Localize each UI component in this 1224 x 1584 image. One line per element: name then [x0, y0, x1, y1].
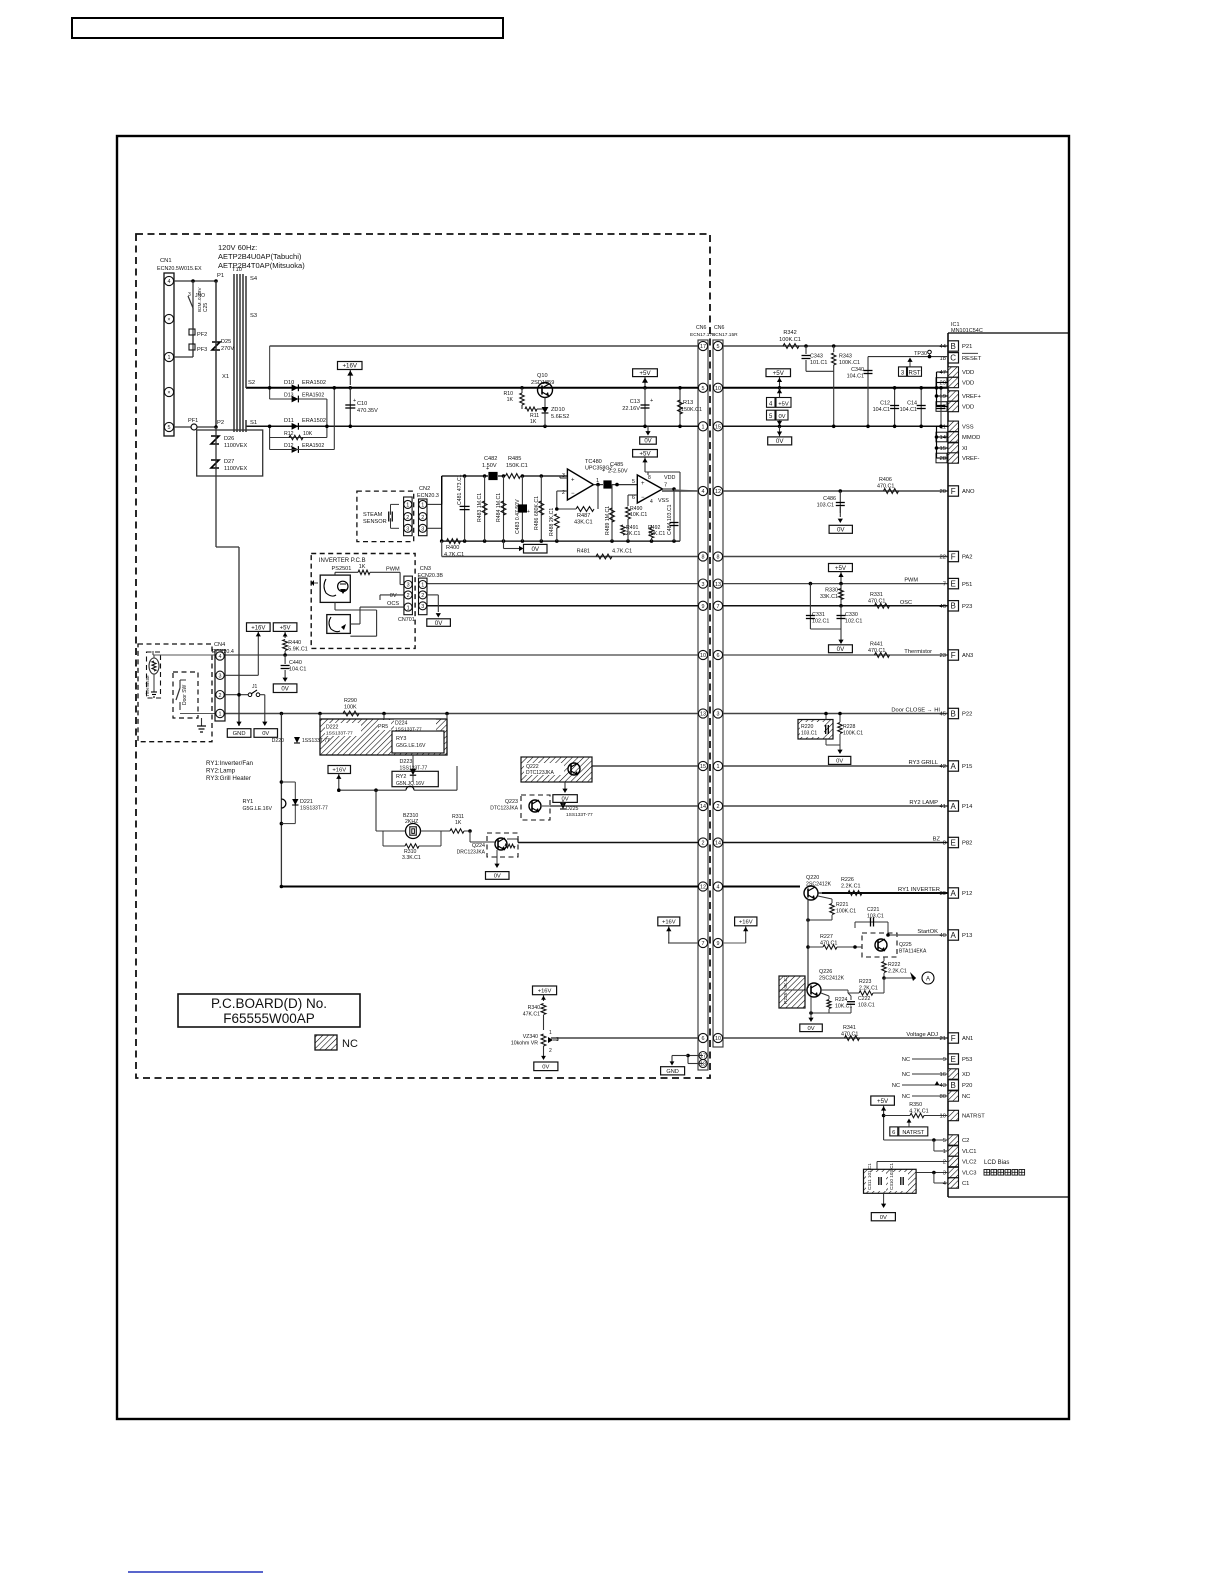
- svg-text:E: E: [951, 1055, 956, 1064]
- steam sensor dashed box: [357, 491, 414, 541]
- resistor R290 100K: [280, 698, 449, 716]
- capacitor C340 104.C1: [847, 357, 873, 429]
- svg-text:RY3 GRILL: RY3 GRILL: [908, 760, 938, 766]
- svg-text:1SS133T-77: 1SS133T-77: [302, 738, 330, 744]
- net label RY1 INVERTER: [898, 887, 940, 893]
- wire StartOK: [886, 933, 948, 937]
- svg-text:P12: P12: [962, 891, 972, 897]
- svg-text:VDD: VDD: [962, 405, 974, 411]
- connector CN701 pin 2: [404, 591, 412, 599]
- svg-text:23: 23: [940, 653, 946, 659]
- svg-text:+5V: +5V: [773, 370, 785, 377]
- svg-text:+16V: +16V: [662, 919, 676, 925]
- wire CN1-1 to fuse branch: [174, 308, 193, 357]
- svg-text:Q226: Q226: [819, 969, 832, 975]
- resistor R481 4.7K.C1: [577, 549, 633, 559]
- connector CN1 pin 1: [164, 352, 173, 361]
- svg-text:5: 5: [943, 1138, 946, 1144]
- svg-text:CN3: CN3: [420, 566, 431, 572]
- svg-text:33K.C1: 33K.C1: [820, 594, 838, 600]
- wire VDD pin bus: [935, 372, 948, 407]
- ic pin 21 AN1: [940, 1033, 974, 1043]
- wire CN2-1 to opamp rail: [427, 476, 442, 504]
- svg-text:VLC2: VLC2: [962, 1160, 977, 1166]
- footer link line: [128, 1571, 263, 1573]
- svg-text:1SS133T-77: 1SS133T-77: [566, 812, 593, 818]
- svg-text:C485: C485: [610, 462, 623, 468]
- wire bus y655 pins 10/6: [224, 650, 948, 659]
- svg-text:XD: XD: [962, 1072, 970, 1078]
- svg-text:B: B: [951, 342, 956, 351]
- svg-text:1: 1: [219, 712, 222, 718]
- svg-text:VREF+: VREF+: [962, 394, 981, 400]
- net label Thermistor: [904, 649, 932, 655]
- svg-text:R488 2K.C1: R488 2K.C1: [549, 508, 555, 536]
- wire bus y806 pins 14/2: [550, 801, 948, 810]
- wire R12 branch: [268, 425, 329, 450]
- power +16V pin9: [723, 917, 757, 943]
- buzzer BZ310 2KHZ: [376, 790, 450, 838]
- wire opamp bottom rail: [440, 539, 680, 543]
- resistor R331 470.C1: [868, 592, 890, 608]
- wire door to CN4-1: [180, 680, 224, 714]
- transistor Q10 2SD1859: [520, 373, 554, 428]
- text mains rating: [218, 243, 305, 270]
- wire C1 jog: [934, 1173, 948, 1184]
- svg-text:0V: 0V: [262, 731, 269, 737]
- wire opto internal 0V: [335, 602, 377, 636]
- svg-text:0V: 0V: [778, 414, 785, 420]
- connector steam pin 2: [404, 513, 412, 521]
- power 0V door: [829, 756, 851, 764]
- svg-text:8: 8: [943, 841, 946, 847]
- op-amp U1B: [632, 475, 676, 505]
- svg-text:P82: P82: [962, 841, 972, 847]
- wire opamp vdd rail: [645, 472, 680, 541]
- svg-text:16: 16: [940, 1072, 946, 1078]
- svg-text:10: 10: [700, 653, 706, 659]
- svg-text:TC480: TC480: [585, 459, 602, 465]
- svg-text:P13: P13: [962, 933, 972, 939]
- svg-text:3.3K.C1: 3.3K.C1: [402, 855, 421, 861]
- potentiometer VR340 10kohm: [511, 1030, 559, 1054]
- svg-text:PF3: PF3: [197, 347, 207, 353]
- connector CN6 ECN17-17S body: [690, 325, 715, 1070]
- svg-text:J1: J1: [252, 684, 258, 690]
- svg-text:R350: R350: [909, 1102, 922, 1108]
- svg-text:S4: S4: [250, 276, 258, 282]
- svg-text:7: 7: [717, 604, 720, 610]
- svg-text:ECN20.3: ECN20.3: [417, 493, 439, 499]
- ic pin 5 C2: [943, 1135, 970, 1145]
- svg-text:8: 8: [717, 555, 720, 561]
- svg-text:P1: P1: [217, 273, 224, 279]
- svg-text:D224: D224: [395, 721, 408, 727]
- connector CN1 label: [157, 258, 202, 272]
- capacitor C343 101.C1: [802, 346, 834, 371]
- svg-text:C340: C340: [851, 367, 864, 373]
- svg-text:TP30: TP30: [914, 351, 927, 357]
- ic pin 8 P82: [943, 837, 973, 847]
- svg-text:2SD1859: 2SD1859: [531, 380, 554, 386]
- ic pin 11 VSS: [940, 421, 974, 431]
- svg-text:RY3: RY3: [396, 736, 406, 742]
- svg-text:2: 2: [943, 1160, 946, 1166]
- diode D13 ERA1502: [284, 393, 324, 403]
- svg-text:4.7K.C1: 4.7K.C1: [612, 549, 632, 555]
- wire RY2 rail: [337, 766, 457, 792]
- svg-text:1: 1: [407, 605, 410, 611]
- svg-text:NC: NC: [902, 1057, 910, 1063]
- svg-text:21: 21: [940, 1036, 946, 1042]
- wire RY1 vertical: [280, 714, 284, 889]
- svg-text:×: ×: [167, 390, 170, 396]
- svg-text:270V: 270V: [221, 346, 234, 352]
- svg-text:RST: RST: [909, 370, 921, 376]
- svg-text:0V: 0V: [808, 1026, 815, 1032]
- wire VSS pin bus: [935, 426, 948, 458]
- svg-text:PWM: PWM: [386, 567, 400, 573]
- svg-text:D25: D25: [221, 339, 231, 345]
- svg-text:10kohm VR: 10kohm VR: [511, 1041, 538, 1047]
- svg-text:1: 1: [421, 583, 424, 589]
- net label Voltage ADJ: [906, 1032, 938, 1038]
- diode D225 1SS133T-77: [560, 800, 593, 818]
- svg-text:P15: P15: [962, 764, 972, 770]
- power +16V relay rail: [328, 766, 351, 791]
- power 0V mid: [829, 645, 853, 653]
- svg-text:ZD10: ZD10: [551, 407, 565, 413]
- svg-text:5.9K.C1: 5.9K.C1: [288, 647, 307, 653]
- connector CN3 pin 2: [419, 591, 427, 599]
- svg-text:C486: C486: [823, 496, 836, 502]
- svg-text:C: C: [950, 354, 956, 363]
- svg-text:150K.C1: 150K.C1: [681, 407, 702, 413]
- wire VLC2 net: [877, 1162, 948, 1170]
- inverter pcb label: [319, 558, 366, 564]
- svg-text:15: 15: [700, 764, 706, 770]
- label box 5 0V: [767, 410, 789, 428]
- power +16V vr: [533, 986, 557, 1001]
- svg-text:AN3: AN3: [962, 653, 973, 659]
- svg-text:1: 1: [943, 1149, 946, 1155]
- svg-text:R489 1M.C1: R489 1M.C1: [605, 506, 611, 535]
- resistor R341 470.C1: [841, 1025, 860, 1040]
- svg-text:D10: D10: [284, 380, 294, 386]
- resistor R224 10K.C1: [809, 993, 852, 1015]
- svg-text:T10: T10: [232, 267, 242, 273]
- svg-text:VDD: VDD: [664, 475, 675, 481]
- ic pin 15 XI: [940, 443, 968, 453]
- svg-text:NATRST: NATRST: [902, 1130, 925, 1136]
- svg-text:RY3:Grill Heater: RY3:Grill Heater: [206, 775, 251, 782]
- resistor R483 1M.C1: [477, 476, 487, 541]
- net label OCS inverter: [387, 601, 399, 607]
- svg-text:1SS133T-77: 1SS133T-77: [300, 806, 328, 812]
- connector CN4 body: [215, 650, 225, 721]
- wire Q224 collector BZ: [507, 839, 518, 843]
- svg-text:0V: 0V: [644, 439, 651, 445]
- capacitor bypass third: [937, 386, 946, 428]
- capacitor C222 103.C1: [829, 993, 875, 1013]
- svg-text:2: 2: [407, 593, 410, 599]
- svg-text:101.C1: 101.C1: [810, 360, 827, 366]
- diode D220 1SS133T-77: [272, 737, 330, 744]
- resistor R488 2K.C1: [549, 508, 559, 541]
- svg-text:R228: R228: [843, 724, 856, 730]
- capacitor C10 470.35V: [345, 388, 378, 428]
- svg-text:C331: C331: [812, 612, 825, 618]
- ic pin 14 MMOD: [940, 432, 981, 442]
- NC legend: [315, 1035, 358, 1050]
- svg-text:+: +: [650, 398, 653, 404]
- wire opto2 to OCS: [350, 607, 404, 624]
- svg-text:Q225: Q225: [899, 942, 912, 948]
- resistor R491 2K.C1: [621, 525, 641, 537]
- diode ZD10 5.6ES2: [542, 398, 570, 427]
- svg-text:Q220: Q220: [806, 875, 819, 881]
- power +5V mid: [829, 564, 853, 586]
- ic pin 41 P14: [940, 801, 974, 811]
- wire CN2-3 to bottom rail: [427, 527, 442, 529]
- svg-text:C481 473.C1: C481 473.C1: [457, 474, 463, 505]
- svg-text:R483 1M.C1: R483 1M.C1: [477, 493, 483, 522]
- svg-text:ERA1502: ERA1502: [302, 418, 326, 424]
- svg-text:Q10: Q10: [537, 373, 548, 379]
- svg-text:1: 1: [717, 764, 720, 770]
- ic pin 46 P23: [940, 601, 973, 611]
- svg-text:2K.C1: 2K.C1: [626, 531, 641, 537]
- steam sensor label: [363, 512, 387, 525]
- svg-text:1K: 1K: [455, 820, 462, 826]
- wire P2 down to jog: [216, 427, 239, 726]
- connector CN4 pin 4: [216, 652, 224, 660]
- capacitor R220 103.C1 hatched: [798, 712, 840, 745]
- svg-text:20: 20: [940, 489, 946, 495]
- svg-text:8: 8: [648, 475, 651, 481]
- resistor R406 470.C1: [839, 477, 899, 493]
- svg-text:7: 7: [943, 582, 946, 588]
- thermistor symbol: [145, 652, 161, 698]
- svg-text:3: 3: [943, 1171, 946, 1177]
- svg-text:PS2501: PS2501: [332, 566, 352, 572]
- capacitor C484 103.C1: [667, 504, 679, 541]
- svg-text:7: 7: [702, 941, 705, 947]
- steam sensor element: [389, 504, 399, 528]
- capacitor C483 0.47.50V: [515, 476, 530, 541]
- svg-text:Voltage ADJ: Voltage ADJ: [906, 1032, 938, 1038]
- svg-text:D220: D220: [272, 738, 285, 744]
- svg-text:2: 2: [219, 693, 222, 699]
- ic pin 28 VREF-: [940, 453, 980, 463]
- svg-text:5.6ES2: 5.6ES2: [551, 414, 569, 420]
- svg-text:0V: 0V: [880, 1215, 887, 1221]
- ic pin 45 P22: [940, 708, 973, 718]
- ic pin 7 P51: [943, 578, 973, 588]
- net label NC P20: [892, 1081, 948, 1089]
- connector CN1 body: [164, 273, 174, 436]
- svg-text:104.C1: 104.C1: [289, 667, 306, 673]
- net label BZ: [933, 837, 941, 843]
- power 0V cn4: [273, 684, 297, 693]
- resistor R492 10K.C1: [648, 525, 665, 541]
- svg-text:D26: D26: [224, 436, 234, 442]
- resistor R310 3.3K.C1: [383, 831, 441, 861]
- svg-text:103.C1: 103.C1: [867, 914, 884, 920]
- svg-text:X1: X1: [222, 374, 229, 380]
- ic pin 10 NATRST: [940, 1110, 986, 1120]
- net label NC NC: [902, 1094, 948, 1100]
- connector CN2 label: [417, 486, 439, 499]
- svg-text:S1: S1: [250, 420, 257, 426]
- svg-text:12: 12: [715, 489, 721, 495]
- diode D11 ERA1502: [284, 418, 326, 430]
- svg-text:C310 103.C1: C310 103.C1: [889, 1162, 894, 1190]
- svg-text:D221: D221: [300, 799, 313, 805]
- svg-text:A: A: [951, 762, 957, 771]
- test point TP30: [914, 350, 931, 358]
- connector CN4 pin 1: [216, 709, 224, 717]
- svg-text:DRC123JKA: DRC123JKA: [457, 850, 486, 856]
- svg-text:P.C.BOARD(D) No.: P.C.BOARD(D) No.: [211, 996, 327, 1011]
- svg-text:R223: R223: [859, 979, 872, 985]
- svg-text:+16V: +16V: [332, 768, 346, 774]
- svg-text:103.C1: 103.C1: [817, 503, 834, 509]
- svg-text:43K.C1: 43K.C1: [574, 520, 593, 526]
- svg-text:+16V: +16V: [538, 988, 552, 994]
- svg-text:R485: R485: [508, 456, 521, 462]
- switch JNO thermal cutout: [188, 281, 205, 308]
- svg-text:43: 43: [940, 1083, 946, 1089]
- resistor R10 1K: [503, 388, 524, 409]
- svg-text:45: 45: [940, 712, 946, 718]
- power GND bottom: [661, 1054, 703, 1075]
- svg-text:StartOK: StartOK: [917, 929, 938, 935]
- wire bus y886 pins 12/4: [281, 882, 800, 891]
- wire opto 0V to CN701: [380, 595, 404, 600]
- svg-text:22: 22: [940, 555, 946, 561]
- resistor R487 43K.C1: [555, 485, 598, 526]
- svg-text:13: 13: [700, 712, 706, 718]
- svg-text:4: 4: [168, 279, 171, 285]
- optocoupler PS2501 label: [332, 566, 352, 572]
- svg-text:+: +: [527, 509, 530, 515]
- wire D13 branch: [270, 399, 327, 438]
- fuse PF2: [189, 291, 207, 344]
- svg-text:0V: 0V: [390, 593, 397, 599]
- svg-text:PA2: PA2: [962, 555, 973, 561]
- svg-text:F: F: [951, 552, 956, 561]
- diode D12 ERA1502: [270, 386, 337, 453]
- svg-text:7: 7: [664, 483, 667, 489]
- transistor Q226 2SC2412K: [807, 969, 845, 997]
- svg-text:39: 39: [940, 891, 946, 897]
- svg-text:S3: S3: [250, 313, 257, 319]
- capacitor C440 104.C1: [281, 655, 307, 682]
- svg-text:GND: GND: [666, 1069, 678, 1075]
- svg-text:Door CLOSE → HI: Door CLOSE → HI: [891, 708, 940, 714]
- svg-text:C13: C13: [630, 399, 640, 405]
- transformer T10 primary: [214, 273, 229, 429]
- capacitor C12 104.C1: [873, 386, 899, 428]
- svg-text:+5V: +5V: [639, 370, 651, 377]
- ic pin 20 ANO: [940, 486, 976, 496]
- resistor R441 470.C1: [868, 642, 890, 658]
- resistor R13 150K.C1: [678, 386, 702, 428]
- svg-text:R221: R221: [836, 902, 849, 908]
- svg-text:C221: C221: [867, 907, 880, 913]
- resistor R222 2.2K.C1: [882, 957, 907, 980]
- svg-text:C483 0.47.50V: C483 0.47.50V: [515, 499, 521, 534]
- switch J1: [225, 684, 265, 724]
- connector steam pin 1: [404, 500, 412, 508]
- transformer T10 secondary: [246, 276, 258, 432]
- svg-text:+16V: +16V: [342, 363, 357, 370]
- diode D223 1SS133T-77: [400, 755, 428, 782]
- transformer T10 core: [232, 267, 243, 432]
- svg-text:PF1: PF1: [188, 418, 198, 424]
- svg-text:5: 5: [632, 479, 635, 485]
- svg-text:ERA1502: ERA1502: [302, 443, 324, 449]
- label box 4 +5V: [767, 388, 792, 408]
- svg-text:46: 46: [940, 604, 946, 610]
- power 0V q224: [486, 850, 510, 880]
- wire caps to 0V: [810, 629, 843, 644]
- power +5V cn4: [273, 623, 297, 632]
- ic pin 3 VLC3: [943, 1167, 977, 1177]
- resistor R311 1K: [450, 814, 472, 833]
- svg-text:RY1 INVERTER: RY1 INVERTER: [898, 887, 940, 893]
- svg-text:CN701: CN701: [398, 617, 415, 623]
- resistor 1K pwm: [358, 564, 370, 575]
- svg-text:B: B: [951, 1081, 956, 1090]
- power 0V below 5: [768, 426, 792, 445]
- net label StartOK: [917, 929, 938, 935]
- svg-text:R340: R340: [528, 1005, 541, 1011]
- svg-text:D11: D11: [284, 418, 294, 424]
- power +5V natrst: [871, 1096, 895, 1140]
- capacitor C13 22.16V: [622, 388, 653, 428]
- svg-text:A: A: [951, 931, 957, 940]
- power +16V rectifier: [338, 362, 363, 390]
- wire bus y346 pins 17/5: [270, 341, 948, 350]
- svg-text:PWM: PWM: [904, 578, 918, 584]
- svg-text:ERA1502: ERA1502: [302, 380, 326, 386]
- svg-text:CN2: CN2: [419, 486, 430, 492]
- connector CN1 pin x2: [164, 387, 173, 396]
- svg-text:C222: C222: [858, 996, 871, 1002]
- ic pin 80 NC: [940, 1091, 971, 1101]
- svg-text:ECN17.15R: ECN17.15R: [712, 332, 738, 338]
- relay RY2 coil box: [392, 771, 438, 790]
- svg-text:13: 13: [715, 582, 721, 588]
- svg-text:C2: C2: [962, 1138, 969, 1144]
- svg-text:18: 18: [700, 1062, 706, 1068]
- svg-text:PF2: PF2: [197, 332, 207, 338]
- svg-text:1K: 1K: [507, 397, 514, 403]
- svg-text:R400: R400: [446, 545, 459, 551]
- svg-text:3: 3: [406, 527, 409, 533]
- net label NC XD: [902, 1072, 948, 1078]
- svg-text:28: 28: [940, 456, 946, 462]
- svg-text:104.C1: 104.C1: [900, 407, 917, 413]
- capacitor C486 103.C1: [817, 491, 845, 523]
- svg-text:1SS133T-77: 1SS133T-77: [395, 727, 422, 733]
- svg-text:C440: C440: [289, 660, 302, 666]
- svg-text:ANO: ANO: [962, 489, 975, 495]
- wire bus y583 pins 3/13: [427, 579, 948, 588]
- varistor D25 270V: [212, 339, 234, 352]
